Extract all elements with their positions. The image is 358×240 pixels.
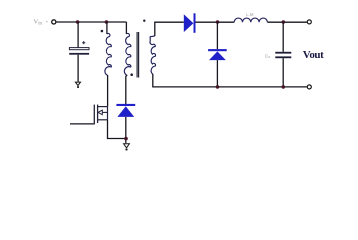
- wire top rail primary: [56, 21, 126, 23]
- wire inductor to output port: [267, 21, 307, 23]
- diode D3 reset cathode bar: [116, 104, 135, 106]
- wire primary winding top lead: [106, 22, 108, 34]
- diode D3 reset triangle (up): [117, 106, 134, 117]
- junction dot source/diode/ground: [124, 137, 128, 141]
- capacitor Co bottom plate: [275, 56, 291, 58]
- MOSFET Q1 body arrow: [98, 110, 102, 115]
- wire primary bottom to MOSFET drain: [107, 75, 109, 107]
- transformer core line 2: [138, 32, 140, 78]
- MOSFET Q1 right vertical lead: [107, 107, 109, 120]
- ground (main) triangle: [124, 144, 130, 148]
- wire input cap bottom lead: [77, 55, 79, 82]
- transformer core line 1: [136, 32, 138, 78]
- phase dot reset winding: [130, 73, 133, 76]
- phase dot primary winding: [101, 30, 104, 33]
- wire reset winding bottom to diode: [126, 75, 127, 104]
- diode D2 freewheel cathode bar: [208, 49, 227, 51]
- wire D1 cathode to inductor: [196, 21, 235, 23]
- junction dot at primary winding top: [105, 20, 109, 24]
- capacitor Cin bottom plate (solid): [69, 53, 89, 55]
- inductor L coil: [234, 18, 267, 22]
- winding primary (left column): [105, 33, 111, 75]
- junction dot at input cap: [76, 20, 80, 24]
- diode D2 freewheel triangle (up): [209, 51, 226, 60]
- svg-text:Vout: Vout: [303, 49, 324, 61]
- wire input cap top lead: [77, 22, 79, 48]
- capacitor Cin plus sign: [82, 41, 85, 44]
- wire MOSFET source down and right: [108, 120, 126, 139]
- wire output cap bottom lead: [282, 58, 284, 87]
- MOSFET Q1 drain stub: [98, 106, 108, 108]
- output port circle bottom: [307, 85, 311, 89]
- wire freewheel diode top lead: [216, 22, 218, 49]
- phase dot secondary winding: [143, 20, 145, 22]
- MOSFET Q1 gate wire: [70, 123, 94, 125]
- output port circle top: [307, 20, 311, 24]
- capacitor Co top plate: [275, 52, 291, 54]
- capacitor Cin top plate (hollow): [69, 48, 89, 50]
- junction dot freewheel anode bottom: [216, 85, 220, 89]
- wire freewheel diode anode down: [216, 60, 218, 87]
- ground (input cap) triangle: [75, 82, 80, 85]
- wire secondary bottom corner: [153, 74, 307, 87]
- wire output cap top lead: [282, 22, 284, 52]
- MOSFET Q1 gate bar: [93, 105, 95, 125]
- svg-text:Co: Co: [265, 53, 271, 59]
- junction dot at output cap top: [282, 20, 286, 24]
- MOSFET Q1 source stub: [98, 119, 108, 121]
- wire top rail corner to reset winding: [125, 22, 127, 34]
- wire secondary top corner: [155, 22, 184, 36]
- MOSFET Q1 channel bar: [97, 105, 99, 123]
- diode D1 series triangle (right): [184, 14, 194, 32]
- input port circle: [52, 20, 56, 24]
- diode D1 series cathode bar: [194, 13, 196, 33]
- tiny dash before port: [46, 21, 48, 22]
- winding secondary: [150, 36, 156, 74]
- svg-text:L.M: L.M: [246, 12, 254, 17]
- junction dot cap bottom: [282, 85, 286, 89]
- junction dot at freewheel diode top: [216, 20, 220, 24]
- wire reset diode anode down to ground: [125, 117, 127, 143]
- winding reset (right column): [124, 33, 130, 75]
